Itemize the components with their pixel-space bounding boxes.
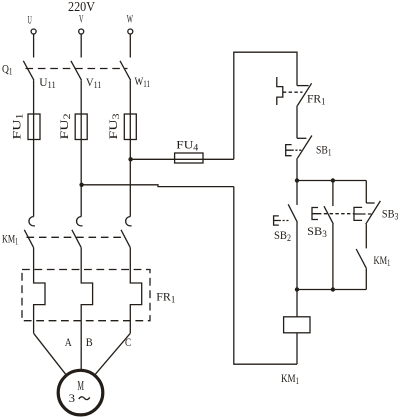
button SB2 NO blade [288,204,297,222]
wire U terminal to switch [33,34,35,58]
svg-text:V: V [79,14,84,26]
thermal contact FR1 linkage dashed [283,91,303,93]
button SB3 NC bar [366,202,374,204]
svg-text:220V: 220V [68,0,95,14]
contactor KM1 pole 3 arc [126,217,132,226]
svg-text:3: 3 [69,391,75,405]
svg-text:FR1: FR1 [307,92,326,107]
button SB3 NO branch wire upper [332,181,334,207]
node bottom rail mid [331,287,335,291]
fuse FU1 [28,114,40,140]
fuse FU4 [175,153,203,163]
node top rail mid [331,178,335,182]
wire KM1 contact to bottom rail [365,268,367,289]
node bottom rail left [295,287,299,291]
button SB2 linkage dashed [279,220,289,222]
svg-text:B: B [86,335,93,349]
switch Q1 linkage dashed [26,68,128,70]
wire phase3 to FU4 [131,158,234,160]
wire V terminal to switch [80,34,82,58]
svg-text:C: C [125,335,131,349]
svg-text:U: U [28,15,33,27]
heater element phase 2 [81,248,92,370]
svg-text:W: W [127,14,133,26]
svg-text:FU1: FU1 [10,114,25,140]
button SB1 NC blade [297,136,312,159]
contact KM1 aux NO blade [356,249,366,268]
node top rail left [295,178,299,182]
contactor KM1 pole 1 blade [24,230,33,248]
wire top parallel rail [297,180,366,182]
contactor KM1 linkage dashed [27,236,125,238]
wire coil to bottom return [296,333,298,364]
wire phase3 switch to KM contact [129,80,131,216]
svg-text:A: A [65,335,72,349]
wire W terminal to switch [129,34,131,58]
wire phase2 to control return (with jog) [82,185,234,187]
svg-text:U11: U11 [39,75,56,90]
thermal relay FR1 heater box dashed [22,270,150,321]
wire control feed up and top rail [234,52,297,159]
button SB2 actuator [274,216,279,225]
svg-text:Q1: Q1 [2,62,13,77]
wire bottom parallel rail [297,289,366,291]
svg-text:W11: W11 [135,74,151,89]
button SB1 linkage dashed [292,149,303,151]
heater element phase 1 [34,248,45,334]
contact FR1 NC bar [297,85,309,87]
svg-text:FU2: FU2 [57,114,72,140]
button SB1 NC bar [297,137,306,139]
wire phase1 switch to KM contact [33,80,35,216]
motor lead A wire [34,333,66,374]
contactor KM1 pole 1 arc [29,217,35,226]
fuse FU2 [75,114,87,140]
heater element phase 3 [130,248,141,334]
svg-text:KM1: KM1 [2,232,18,247]
svg-text:M: M [77,379,84,394]
contactor KM1 pole 3 blade [121,230,130,248]
button SB3 NC actuator [354,207,362,220]
svg-text:FU4: FU4 [176,138,199,153]
wire phase2 switch to KM contact [80,80,82,216]
svg-text:SB2: SB2 [274,228,291,243]
contactor KM1 pole 2 blade [72,230,81,248]
wire node to coil [296,290,298,317]
button SB1 actuator [286,145,292,156]
contactor KM1 pole 2 arc [77,217,83,226]
thermal contact FR1 heater symbol [277,77,283,105]
switch Q1 pole 1 blade [23,61,34,80]
svg-text:KM1: KM1 [281,371,299,386]
svg-text:SB1: SB1 [316,142,332,157]
motor lead C wire [95,333,130,374]
wire SB1 to node [296,158,298,180]
svg-text:KM1: KM1 [374,253,391,268]
wire FR1 to SB1 [296,106,298,139]
fuse FU3 [124,114,136,140]
svg-text:SB3: SB3 [307,224,327,239]
button SB3 NO blade [324,206,333,224]
coil KM1 [284,317,310,333]
node junction phase3 to FU4 [128,157,132,161]
wire bottom return to phase2 [234,187,297,365]
button SB3 NC blade [366,201,381,224]
svg-text:FU3: FU3 [106,113,121,140]
contact FR1 NC blade [297,83,311,105]
svg-text:SB3: SB3 [382,207,399,222]
button SB3 NO branch wire lower [332,224,334,290]
svg-text:FR1: FR1 [156,290,175,305]
switch Q1 pole 3 blade [120,61,131,80]
button SB2 branch wire lower [296,222,298,289]
wire SB3 NC to KM1 contact [365,224,367,248]
svg-text:V11: V11 [86,75,102,90]
button SB3 linkage dashed long [318,213,373,215]
motor M 3~ [58,370,103,415]
button SB3 NO actuator [312,208,318,220]
node junction phase2 to control [79,183,83,187]
button SB3 NC branch wire upper [365,181,367,204]
switch Q1 pole 2 blade [71,61,82,80]
button SB2 branch wire upper [296,181,298,205]
